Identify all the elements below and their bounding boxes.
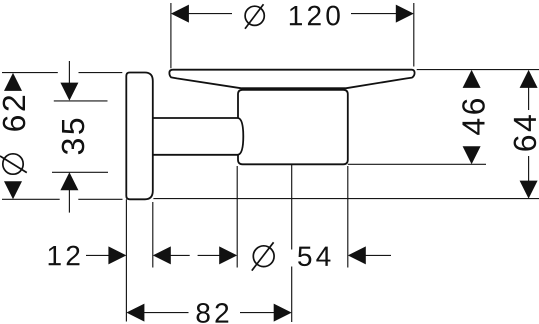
dim 64 upper tail xyxy=(528,87,530,110)
arrow dim12 right xyxy=(153,246,171,264)
label 46 rotated xyxy=(462,99,485,135)
cup body xyxy=(238,90,348,165)
dim 35 top arrow tail xyxy=(68,61,70,84)
label 12 xyxy=(49,246,80,266)
arrow dim35 top xyxy=(60,83,78,101)
arrow dim62 bottom xyxy=(4,181,22,199)
ext line 82-right below xyxy=(291,165,293,322)
dim 35 bottom arrow tail xyxy=(68,189,70,213)
diameter symbol top xyxy=(245,4,264,29)
label 64 rotated xyxy=(514,115,537,151)
dim line 120 right tail xyxy=(351,13,397,15)
ext line cup-left below xyxy=(236,166,238,268)
dish underside center line xyxy=(242,87,346,89)
dim 12 tail xyxy=(86,254,109,256)
arrow dim46 bottom xyxy=(463,146,481,164)
ext line dim120 left xyxy=(170,3,172,68)
label 54 xyxy=(298,247,330,267)
ext line 35 top xyxy=(54,100,108,102)
ext line 35 bottom xyxy=(52,171,108,173)
arrow dim12 left xyxy=(108,246,126,264)
arm bottom edge xyxy=(153,154,238,156)
ext line cup-right below xyxy=(347,166,349,268)
arrow dim64 top xyxy=(520,70,538,88)
wall plate xyxy=(126,73,153,200)
arrow dim62 top xyxy=(4,73,22,91)
diameter symbol bottom xyxy=(252,242,274,270)
dim 12 right tail xyxy=(170,254,189,256)
label 35 rotated xyxy=(62,119,85,155)
arm top edge xyxy=(153,117,238,119)
arm rounded cap xyxy=(238,118,243,155)
dim 64 lower tail xyxy=(528,156,530,181)
dim line 120 left tail xyxy=(188,13,232,15)
dim 54 left tail xyxy=(198,254,220,256)
ext line 64 bottom long xyxy=(153,198,539,200)
dim 54 right tail xyxy=(365,254,391,256)
ext line plate-left below xyxy=(125,199,127,321)
label 62 rotated xyxy=(3,96,26,131)
diameter symbol left rotated xyxy=(0,154,27,174)
arrow dim82 right xyxy=(274,304,292,322)
dim 82 left tail xyxy=(144,312,189,314)
arrow dim64 bottom xyxy=(520,181,538,199)
arrow dim54 left xyxy=(219,246,237,264)
arrow dim54 right xyxy=(348,246,366,264)
ext line dim120 right xyxy=(413,3,415,67)
ext line plate-right below xyxy=(152,202,154,268)
ext line 62 top xyxy=(2,72,122,74)
arrow dim35 bottom xyxy=(60,172,78,190)
ext line top right (dish top) xyxy=(417,69,539,71)
ext line 46 bottom xyxy=(348,163,486,165)
dish plate xyxy=(169,70,414,89)
dim 82 right tail xyxy=(240,312,275,314)
arrow dim120 right xyxy=(396,5,414,23)
arrow dim46 top xyxy=(463,70,481,88)
label 82 xyxy=(197,303,229,323)
arrow dim82 left xyxy=(126,304,144,322)
label 120 xyxy=(290,6,340,26)
ext line 62 bottom xyxy=(2,198,123,200)
arrow dim120 left xyxy=(171,5,189,23)
